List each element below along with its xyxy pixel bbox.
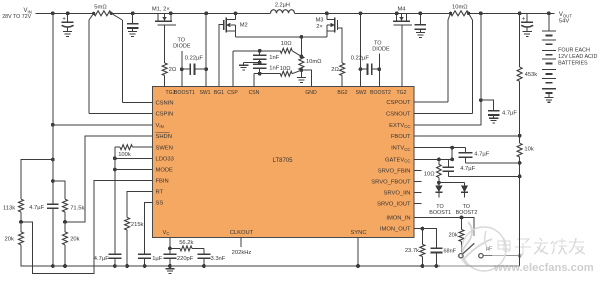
wire 113k bottom xyxy=(19,212,23,224)
ground input electrolytic xyxy=(63,32,72,37)
svg-text:FBIN: FBIN xyxy=(156,179,169,185)
wire CSPIN kelvin xyxy=(89,13,152,113)
wire 453k to FBOUT xyxy=(518,81,522,137)
resistor 10mOhm output sense xyxy=(449,4,470,15)
wire 10k bottom column xyxy=(518,157,522,266)
svg-text:INTVCC: INTVCC xyxy=(391,146,410,152)
svg-text:FBOUT: FBOUT xyxy=(391,134,411,140)
ground C2 xyxy=(128,32,137,37)
svg-text:GND: GND xyxy=(305,90,317,96)
capacitor 0.22uF BOOST1 xyxy=(182,55,206,75)
node VIN rail junctions xyxy=(51,11,551,15)
resistor 10mOhm sense xyxy=(299,37,322,72)
svg-text:0.22µF: 0.22µF xyxy=(351,55,370,61)
svg-text:VIN: VIN xyxy=(156,123,164,129)
resistor 10ohm boost diodes xyxy=(424,159,441,184)
node ground rail junctions xyxy=(51,264,438,268)
wire 453k column top xyxy=(519,13,521,67)
capacitor 1uF SS xyxy=(138,254,163,266)
svg-text:TO: TO xyxy=(463,204,470,210)
svg-text:+: + xyxy=(62,15,66,22)
svg-text:CSPIN: CSPIN xyxy=(156,112,174,118)
resistor 71.5k xyxy=(63,199,85,212)
svg-text:CLKOUT: CLKOUT xyxy=(230,230,254,236)
watermark logo xyxy=(462,222,601,276)
wire SWEN xyxy=(115,146,153,148)
svg-text:10mΩ: 10mΩ xyxy=(306,59,322,65)
wire BOOST1 xyxy=(180,51,184,87)
svg-text:1nF: 1nF xyxy=(269,55,279,61)
wire INTVCC cap return xyxy=(465,162,519,164)
diode D1 to BOOST1 xyxy=(435,183,442,198)
wire INTVCC-GATEVCC link xyxy=(450,148,454,162)
resistor 215k xyxy=(125,218,144,267)
wire switch to ground column xyxy=(483,255,519,257)
svg-text:3.3nF: 3.3nF xyxy=(211,256,226,262)
wire LDO33 MODE node xyxy=(113,147,117,254)
label TO BOOST2 xyxy=(456,204,478,216)
svg-text:DIODE: DIODE xyxy=(372,46,390,52)
label VOUT xyxy=(559,12,572,24)
svg-text:FOUR EACH: FOUR EACH xyxy=(558,48,590,54)
svg-text:215k: 215k xyxy=(131,222,144,228)
watermark chinese text xyxy=(498,238,585,255)
wire CSNIN kelvin xyxy=(111,13,152,102)
svg-text:+: + xyxy=(522,15,526,22)
svg-text:28V TO 72V: 28V TO 72V xyxy=(2,14,31,20)
svg-text:10Ω: 10Ω xyxy=(424,171,435,177)
resistor 10ohm CSN xyxy=(280,66,292,76)
capacitor 4.7uF EXTVCC xyxy=(481,100,517,118)
battery stack four 12V xyxy=(542,13,556,97)
wire FBIN xyxy=(21,181,152,274)
wire SW2 xyxy=(359,13,363,86)
resistor 20k right xyxy=(63,222,80,266)
svg-text:CSN: CSN xyxy=(249,90,260,96)
svg-text:4.7µF: 4.7µF xyxy=(502,111,517,117)
label VIN xyxy=(2,8,32,20)
wire SW1 xyxy=(204,13,208,86)
capacitor 4.7uF GATEVCC xyxy=(443,159,476,176)
wire GATEVCC cap return xyxy=(448,175,519,177)
svg-text:23.7k: 23.7k xyxy=(405,248,419,254)
IC left pin labels xyxy=(155,101,174,207)
wire CSP xyxy=(233,49,280,87)
svg-text:54V: 54V xyxy=(559,19,569,25)
svg-text:EXTVCC: EXTVCC xyxy=(389,123,410,129)
wire SYNC xyxy=(357,238,359,266)
wire TG1 gate xyxy=(164,25,166,87)
switch S1 xyxy=(459,243,483,258)
resistor 2ohm TG1 xyxy=(162,63,177,76)
svg-text:SRVO_IOUT: SRVO_IOUT xyxy=(377,201,411,207)
capacitor 4.7uF LDO33 xyxy=(94,254,122,266)
capacitor 4.7uF divider xyxy=(29,204,58,266)
svg-text:SHDN: SHDN xyxy=(156,134,172,140)
svg-text:202kHz: 202kHz xyxy=(232,250,252,256)
capacitor 4.7uF INTVCC xyxy=(458,148,489,163)
wire CSN xyxy=(254,72,280,87)
wire LDO33 xyxy=(115,157,153,159)
svg-text:BATTERIES: BATTERIES xyxy=(558,60,588,66)
wire EXTVCC xyxy=(414,13,483,125)
capacitor C1 input electrolytic xyxy=(62,13,74,31)
svg-text:CSNIN: CSNIN xyxy=(156,101,174,107)
ground battery xyxy=(544,97,553,102)
resistor 20k IMON xyxy=(448,217,464,253)
wire CSP diagonal xyxy=(292,51,301,57)
svg-text:56.2k: 56.2k xyxy=(179,240,193,246)
capacitor 3.3nF xyxy=(197,248,225,266)
svg-text:CSP: CSP xyxy=(227,90,238,96)
svg-text:SRVO_IIN: SRVO_IIN xyxy=(384,190,411,196)
svg-text:LDO33: LDO33 xyxy=(156,157,174,163)
svg-text:SW2: SW2 xyxy=(355,90,366,96)
wire 113k top xyxy=(21,160,53,200)
resistor 453k xyxy=(517,67,537,81)
svg-text:LT8705: LT8705 xyxy=(273,158,294,164)
wire SHDN xyxy=(65,136,152,222)
svg-text:1nF: 1nF xyxy=(269,66,279,72)
transistor M3 xyxy=(315,13,342,63)
wire 71.5k bottom xyxy=(63,212,67,224)
capacitor C3 at M4 xyxy=(415,13,426,32)
wire CSN diagonal xyxy=(292,70,301,74)
wire CSPOUT kelvin xyxy=(414,13,451,102)
svg-text:10Ω: 10Ω xyxy=(281,41,292,47)
transistor M4 xyxy=(393,6,412,25)
capacitor 1nF lower xyxy=(253,63,280,74)
ground 10mOhm xyxy=(297,70,306,82)
IC U1 LT8705 body xyxy=(152,86,414,237)
svg-text:SW1: SW1 xyxy=(199,90,210,96)
wire 10k ground column over watermark xyxy=(440,176,520,266)
svg-text:VC: VC xyxy=(163,230,170,236)
svg-text:20k: 20k xyxy=(5,236,14,242)
resistor 2ohm BG2 xyxy=(331,63,344,86)
svg-text:100k: 100k xyxy=(118,152,131,158)
svg-text:BOOST2: BOOST2 xyxy=(370,90,391,96)
svg-text:4.7µF: 4.7µF xyxy=(474,151,489,157)
ground VC xyxy=(165,266,174,274)
wire TG2 gate xyxy=(401,25,403,87)
svg-text:DIODE: DIODE xyxy=(173,43,191,49)
svg-text:BG1: BG1 xyxy=(214,90,224,96)
resistor 5mOhm input sense xyxy=(92,5,113,16)
wire VIN top rail xyxy=(36,12,555,14)
capacitor 0.22uF BOOST2 xyxy=(351,55,380,75)
svg-text:IMON_OUT: IMON_OUT xyxy=(380,227,411,233)
svg-text:2Ω: 2Ω xyxy=(331,67,339,73)
svg-text:220pF: 220pF xyxy=(177,256,194,262)
svg-text:M4: M4 xyxy=(397,6,406,12)
svg-text:10k: 10k xyxy=(524,146,533,152)
ground EXTVCC cap xyxy=(489,118,498,123)
diode D2 to BOOST2 xyxy=(461,183,468,198)
ground C3 xyxy=(416,33,425,38)
svg-text:10mΩ: 10mΩ xyxy=(452,4,468,10)
wire GATEVCC xyxy=(414,158,452,162)
label battery xyxy=(558,48,597,67)
IC bottom pin labels xyxy=(163,230,367,236)
svg-text:5mΩ: 5mΩ xyxy=(94,5,107,11)
svg-text:4.7µF: 4.7µF xyxy=(460,166,475,172)
svg-text:20k: 20k xyxy=(448,233,457,239)
svg-text:2×: 2× xyxy=(316,24,323,30)
svg-text:SRVO_FBOUT: SRVO_FBOUT xyxy=(371,179,411,185)
svg-text:www.elecfans.com: www.elecfans.com xyxy=(493,262,594,274)
svg-text:453k: 453k xyxy=(525,72,538,78)
svg-text:SWEN: SWEN xyxy=(156,145,173,151)
wire SRVO pin stubs xyxy=(414,170,422,203)
svg-text:TO: TO xyxy=(436,204,443,210)
svg-text:20k: 20k xyxy=(70,236,79,242)
wire SS xyxy=(145,202,153,254)
label 1uF partial xyxy=(486,246,493,252)
svg-text:113k: 113k xyxy=(3,205,15,211)
svg-text:BOOST1: BOOST1 xyxy=(429,210,451,216)
IC top pin labels xyxy=(166,90,407,96)
svg-text:BOOST2: BOOST2 xyxy=(456,210,478,216)
svg-text:CSNOUT: CSNOUT xyxy=(386,112,411,118)
resistor 20k left xyxy=(5,222,53,266)
svg-text:4.7µF: 4.7µF xyxy=(94,256,109,262)
capacitor C2 input ceramic xyxy=(127,13,138,31)
wire FBOUT xyxy=(414,135,520,137)
svg-text:IMON_IN: IMON_IN xyxy=(386,216,410,222)
label TO DIODE left xyxy=(173,37,191,49)
svg-text:0.22µF: 0.22µF xyxy=(185,55,204,61)
svg-text:CSPOUT: CSPOUT xyxy=(386,100,411,106)
wire VC xyxy=(168,238,172,251)
resistor 10k xyxy=(517,136,534,157)
svg-text:4.7µF: 4.7µF xyxy=(29,205,44,211)
wire ground rail xyxy=(21,265,520,267)
capacitor 68nF xyxy=(430,248,456,266)
svg-text:GATEVCC: GATEVCC xyxy=(385,158,410,164)
wire RT xyxy=(127,192,152,218)
svg-text:2Ω: 2Ω xyxy=(169,67,177,73)
svg-text:10Ω: 10Ω xyxy=(280,66,291,72)
svg-text:RT: RT xyxy=(156,190,164,196)
resistor 113k xyxy=(3,199,24,212)
wire CLKOUT stub xyxy=(232,238,252,256)
svg-text:M2: M2 xyxy=(240,23,248,29)
svg-text:2.2µH: 2.2µH xyxy=(275,3,290,9)
wire MODE xyxy=(115,169,153,171)
switch S1 contacts over watermark xyxy=(459,243,483,258)
svg-text:VOUT: VOUT xyxy=(559,12,572,18)
svg-text:MODE: MODE xyxy=(156,168,174,174)
wire IMON_IN xyxy=(414,216,474,237)
svg-text:12V LEAD ACID: 12V LEAD ACID xyxy=(558,54,597,60)
svg-text:SS: SS xyxy=(156,200,164,206)
resistor 56.2k xyxy=(170,240,204,251)
inductor 2.2uH xyxy=(271,3,295,14)
svg-text:BG2: BG2 xyxy=(337,90,347,96)
wire BOOST2 xyxy=(377,54,381,87)
svg-text:TG2: TG2 xyxy=(397,90,407,96)
capacitor COUT electrolytic xyxy=(521,13,533,31)
resistor 10ohm CSP xyxy=(280,41,292,53)
transistor M1 xyxy=(152,6,176,25)
wire CSNOUT kelvin xyxy=(414,13,473,113)
IC right pin labels xyxy=(371,100,411,233)
svg-text:M1, 2×: M1, 2× xyxy=(152,6,170,12)
svg-text:SYNC: SYNC xyxy=(350,230,366,236)
wire GND pin xyxy=(301,70,311,86)
svg-text:1µF: 1µF xyxy=(152,256,163,262)
svg-text:M3: M3 xyxy=(315,18,323,24)
resistor 100k xyxy=(118,145,132,159)
resistor 23.7k xyxy=(405,229,425,266)
node filter mid xyxy=(244,61,262,65)
svg-text:SRVO_FBIN: SRVO_FBIN xyxy=(378,168,411,174)
label TO BOOST1 xyxy=(429,204,451,216)
wire M2 M3 source xyxy=(236,35,327,39)
wire 71.5k top xyxy=(53,181,65,199)
capacitor 1nF upper xyxy=(253,51,280,63)
wire INTVCC xyxy=(414,146,465,150)
transistor M2 xyxy=(219,13,248,86)
svg-text:BOOST1: BOOST1 xyxy=(174,90,195,96)
capacitor 220pF xyxy=(163,248,193,266)
wire IMON_OUT xyxy=(414,227,436,249)
label TO DIODE right xyxy=(372,40,390,52)
ground COUT xyxy=(523,32,532,37)
wire VIN pin xyxy=(53,124,153,126)
watermark url xyxy=(493,262,594,274)
wire VIN vertical xyxy=(51,13,55,204)
ground filter xyxy=(239,63,248,70)
svg-text:71.5k: 71.5k xyxy=(70,205,84,211)
svg-text:µF: µF xyxy=(486,246,493,252)
wire diode anodes xyxy=(439,182,465,184)
svg-text:68nF: 68nF xyxy=(444,248,457,254)
